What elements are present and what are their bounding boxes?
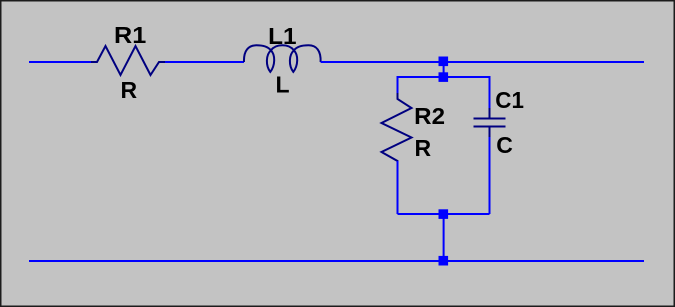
wire R2 lower lead	[397, 161, 399, 214]
wire L1 to node	[321, 61, 644, 63]
capacitor C1 lower lead	[489, 127, 491, 137]
svg-text:R: R	[121, 77, 138, 103]
svg-text:L1: L1	[268, 23, 297, 49]
resistor R2	[382, 93, 412, 167]
capacitor C1 plates	[474, 118, 506, 120]
svg-text:L: L	[276, 72, 290, 98]
wire node stub between junctions	[443, 62, 445, 77]
svg-text:C1: C1	[495, 87, 524, 113]
svg-text:R1: R1	[114, 22, 146, 48]
wire R1 to L1	[165, 61, 244, 63]
capacitor C1 upper lead	[489, 108, 491, 118]
node junction parallel-top	[439, 72, 449, 82]
node junction top (on main wire)	[439, 57, 449, 67]
wire bottom rail	[29, 260, 644, 262]
svg-text:C: C	[496, 132, 513, 158]
node junction parallel-bottom	[439, 209, 449, 219]
resistor R1	[91, 46, 165, 75]
wire down to bottom rail	[443, 214, 445, 261]
wire capacitor to bottom rail	[489, 137, 491, 214]
wire parallel top rail	[398, 77, 490, 108]
svg-text:R: R	[415, 135, 432, 161]
wire parallel bottom rail	[398, 213, 490, 215]
svg-text:R2: R2	[414, 103, 445, 129]
node junction on bottom wire	[439, 256, 449, 266]
inductor L1	[244, 45, 321, 72]
wire top-left segment	[29, 61, 91, 63]
